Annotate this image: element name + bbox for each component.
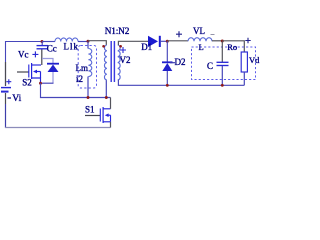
wire S2 source down to mid rail bbox=[41, 83, 111, 97]
node C bottom junction dot bbox=[221, 84, 224, 87]
voltage source Vi bbox=[1, 79, 22, 104]
transformer secondary winding N2 bbox=[118, 45, 122, 80]
wire S2 source to diode bottom bbox=[41, 82, 54, 84]
wire S1 source down to bottom rail (dark) bbox=[110, 122, 112, 128]
label i2 bbox=[76, 74, 83, 84]
transformer primary winding N1 bbox=[102, 45, 107, 80]
node A junction dot bbox=[41, 40, 44, 43]
node primary bottom junction dot bbox=[105, 96, 108, 99]
node B junction dot bbox=[87, 40, 90, 43]
wire Llk to node B bbox=[78, 41, 88, 43]
capacitor C bbox=[207, 41, 229, 85]
dashed box around Lm bbox=[78, 46, 96, 89]
diode D1 bbox=[141, 36, 160, 52]
svg-text:Ro: Ro bbox=[227, 42, 237, 52]
label Vc with plus bbox=[18, 49, 38, 59]
label V2 with plus bbox=[120, 47, 131, 65]
wire drain node to clamp diode bbox=[42, 59, 53, 64]
node D2 bottom junction dot bbox=[166, 84, 169, 87]
wire primary bottom to mid rail bbox=[105, 80, 107, 97]
svg-text:C: C bbox=[207, 61, 213, 71]
inductor Lm bbox=[76, 49, 92, 77]
label Vd with plus bbox=[245, 38, 260, 65]
svg-text:Lm: Lm bbox=[76, 63, 89, 73]
svg-text:D2: D2 bbox=[175, 57, 186, 67]
dashed box output filter with label L bbox=[192, 42, 256, 80]
mosfet S1 bbox=[85, 105, 111, 124]
svg-text:S2: S2 bbox=[22, 78, 32, 88]
svg-text:Vd: Vd bbox=[249, 55, 260, 65]
wire Cc down to S2 drain (dark) bbox=[41, 50, 43, 66]
svg-text:Vc: Vc bbox=[18, 49, 29, 59]
wire left vertical dark segment bbox=[5, 62, 7, 86]
mosfet S2 bbox=[17, 63, 41, 88]
transformer core bbox=[111, 41, 114, 82]
wire node B down into Lm bbox=[87, 42, 89, 49]
wire below source Vi down to bottom rail bbox=[5, 93, 7, 128]
wire node B to transformer primary (dark) bbox=[88, 41, 106, 45]
plus mark at node C bbox=[176, 31, 182, 37]
inductor L bbox=[188, 38, 212, 42]
wire secondary bottom to output rail bbox=[118, 80, 245, 85]
wire Lm bottom to mid rail bbox=[87, 77, 89, 98]
svg-text:D1: D1 bbox=[141, 42, 152, 52]
inductor Llk bbox=[42, 38, 79, 52]
diode body of S2 bbox=[47, 64, 59, 83]
diode D2 bbox=[162, 41, 186, 85]
node D junction dot bbox=[221, 40, 224, 43]
wire node D to Ro top (dark) bbox=[223, 41, 245, 52]
capacitor Cc bbox=[37, 42, 57, 54]
wire S1 drain up to mid rail (dark) bbox=[110, 98, 112, 109]
wire D1 to node C bbox=[160, 40, 168, 42]
wire top-left from source Vi to node A bbox=[6, 42, 43, 87]
wire node C to inductor L (dark) bbox=[168, 40, 189, 42]
svg-text:Vi: Vi bbox=[12, 94, 21, 104]
wire bottom rail bbox=[5, 127, 111, 129]
wire secondary top to D1 bbox=[118, 41, 148, 45]
svg-text:Llk: Llk bbox=[64, 42, 80, 52]
label N1:N2 bbox=[105, 27, 130, 37]
svg-text:V2: V2 bbox=[120, 55, 131, 65]
wire L to node D (dark) bbox=[212, 40, 223, 42]
label VL with small polarity marks bbox=[193, 26, 215, 36]
svg-text:N1:N2: N1:N2 bbox=[105, 27, 130, 37]
svg-text:L: L bbox=[199, 42, 204, 52]
node S2 source junction dot bbox=[39, 82, 42, 85]
node Lm bottom junction dot bbox=[87, 96, 90, 99]
node C junction dot bbox=[166, 40, 169, 43]
svg-text:i2: i2 bbox=[76, 74, 83, 84]
resistor Ro bbox=[227, 42, 247, 85]
svg-text:VL: VL bbox=[193, 26, 205, 36]
svg-text:Cc: Cc bbox=[47, 43, 57, 53]
svg-text:S1: S1 bbox=[85, 105, 95, 115]
